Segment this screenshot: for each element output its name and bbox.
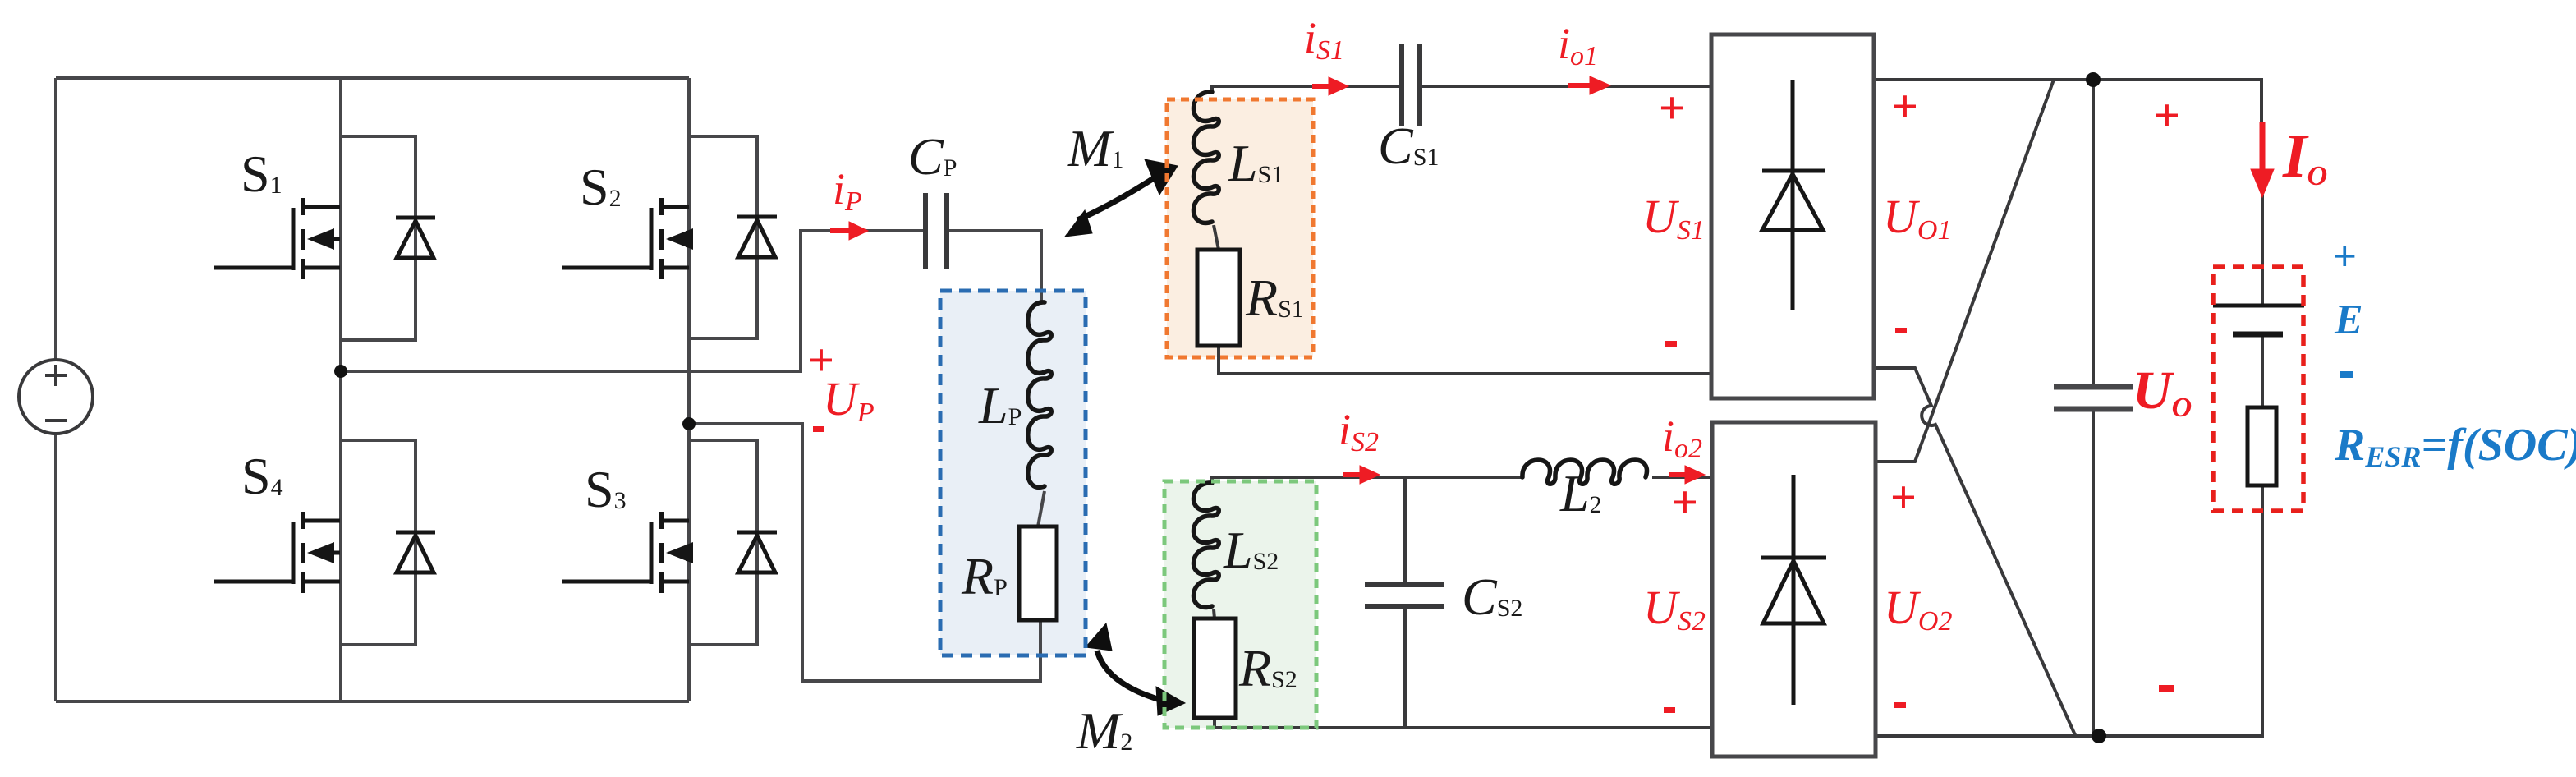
svg-text:+: + bbox=[2154, 90, 2180, 141]
svg-text:+: + bbox=[1892, 81, 1918, 132]
svg-text:E: E bbox=[2334, 297, 2363, 343]
svg-text:+: + bbox=[808, 335, 834, 386]
svg-text:+: + bbox=[1659, 83, 1685, 134]
svg-text:+: + bbox=[2332, 233, 2357, 280]
svg-text:+: + bbox=[1672, 477, 1698, 528]
svg-text:+: + bbox=[1890, 472, 1917, 523]
